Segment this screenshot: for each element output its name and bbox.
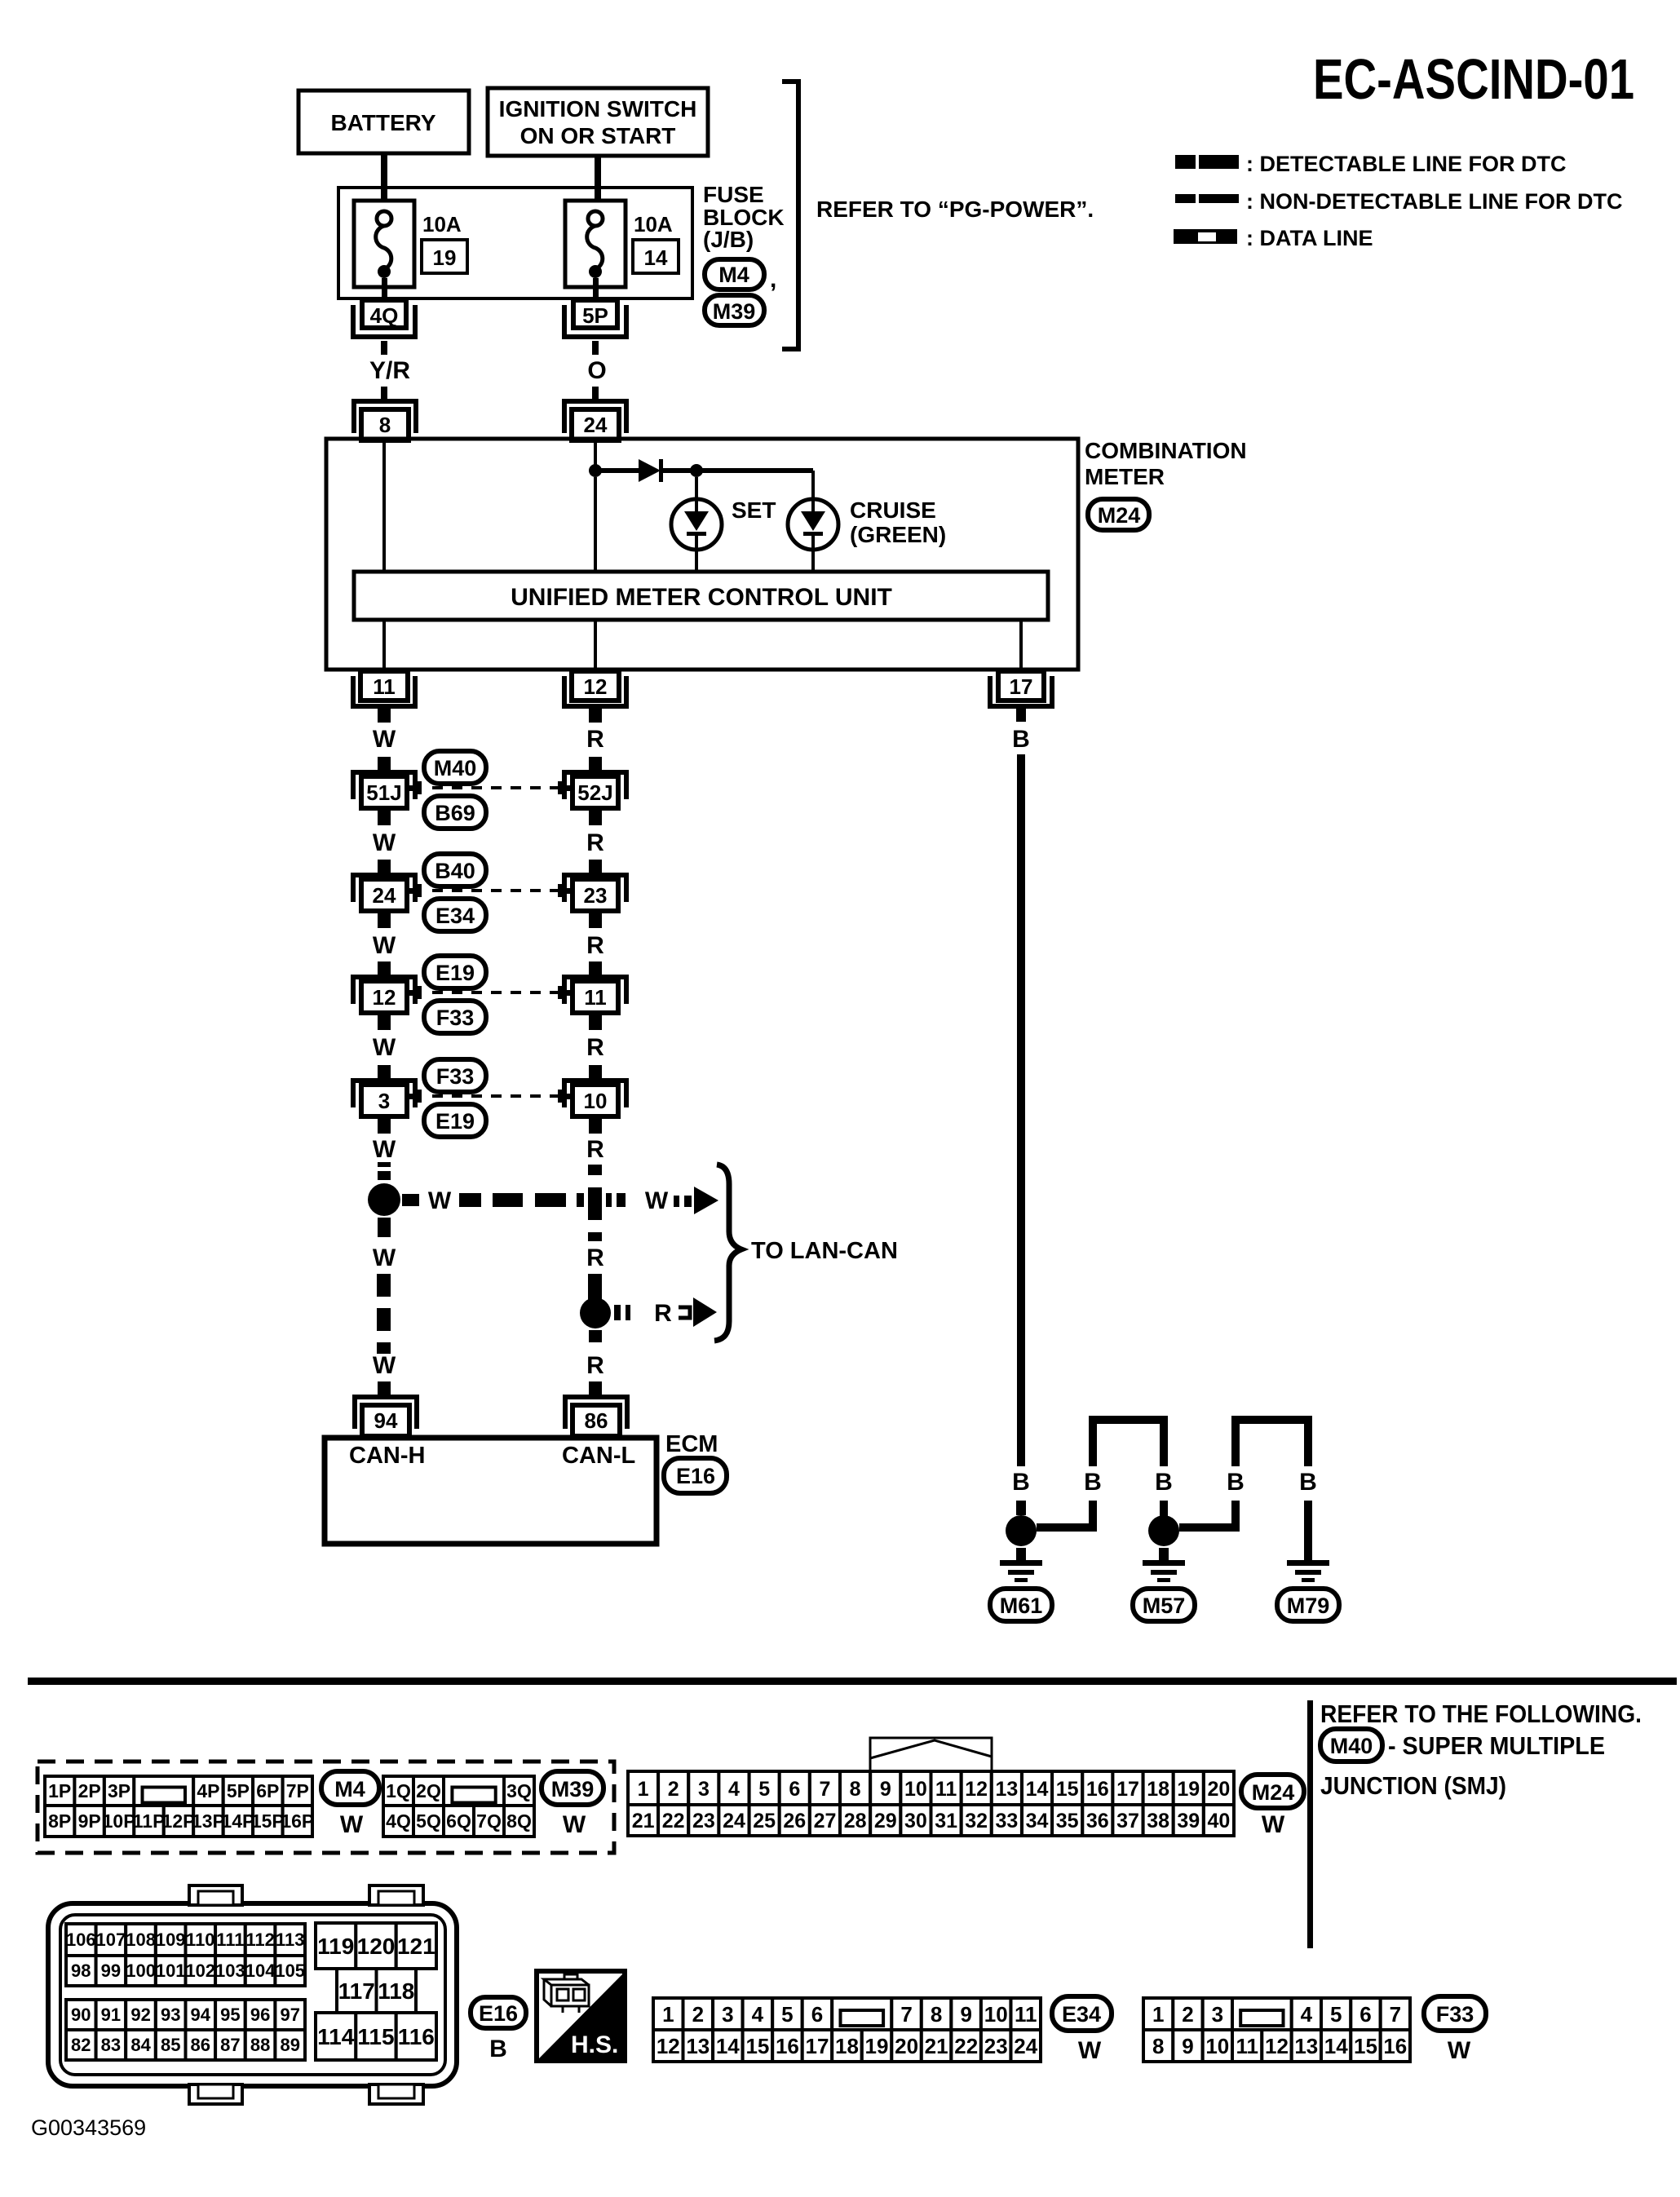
svg-text:24: 24 bbox=[373, 883, 396, 908]
svg-text:M24: M24 bbox=[1098, 503, 1141, 528]
CRUISE (GREEN) label bbox=[850, 497, 946, 547]
svg-text:10: 10 bbox=[1205, 2034, 1229, 2058]
svg-text:1: 1 bbox=[662, 2002, 674, 2027]
svg-text:4: 4 bbox=[752, 2002, 764, 2027]
svg-text:M39: M39 bbox=[713, 299, 756, 324]
svg-text:32: 32 bbox=[965, 1810, 988, 1832]
svg-text:M61: M61 bbox=[1000, 1594, 1043, 1618]
svg-text:G00343569: G00343569 bbox=[31, 2115, 146, 2140]
connector id oval E19 (row 4) bbox=[424, 1104, 486, 1137]
svg-text:93: 93 bbox=[161, 2005, 180, 2025]
svg-text:10: 10 bbox=[584, 1089, 608, 1113]
svg-text:9P: 9P bbox=[78, 1810, 101, 1832]
svg-text:B: B bbox=[1084, 1469, 1102, 1496]
svg-text:COMBINATION: COMBINATION bbox=[1085, 438, 1247, 463]
svg-text:FUSE: FUSE bbox=[703, 182, 764, 207]
connector face F33 pin grid bbox=[1143, 1998, 1410, 2062]
svg-text:: DATA LINE: : DATA LINE bbox=[1246, 226, 1373, 250]
SMJ dashed link 24-23 bbox=[418, 884, 562, 897]
svg-text:14: 14 bbox=[716, 2034, 740, 2058]
svg-text:W: W bbox=[373, 1136, 396, 1163]
wire into SMJ 24 bbox=[378, 860, 391, 873]
svg-text:: DETECTABLE LINE FOR DTC: : DETECTABLE LINE FOR DTC bbox=[1246, 152, 1566, 176]
svg-text:19: 19 bbox=[1177, 1778, 1200, 1801]
wire control unit to terminal 17 bbox=[1019, 620, 1023, 670]
svg-text:21: 21 bbox=[632, 1810, 655, 1832]
junction dot CAN-H branch bbox=[368, 1183, 400, 1216]
svg-text:10A: 10A bbox=[422, 212, 462, 236]
indicator lamp CRUISE (GREEN) bbox=[788, 499, 838, 550]
terminal 12 (combination meter) bbox=[564, 671, 626, 706]
ECM connector E16 housing bbox=[48, 1885, 457, 2104]
E16 pin grid 117-118 bbox=[337, 1969, 416, 2013]
wire staple2 left leg lower bbox=[1231, 1501, 1240, 1532]
svg-text:35: 35 bbox=[1056, 1810, 1079, 1832]
svg-text:33: 33 bbox=[995, 1810, 1018, 1832]
connector id oval B69 (row 1) bbox=[424, 796, 486, 829]
svg-text:1: 1 bbox=[638, 1778, 649, 1801]
fuse 19 10A bbox=[354, 201, 414, 300]
SMJ terminal 3 (left) bbox=[353, 1081, 418, 1116]
svg-text:3: 3 bbox=[722, 2002, 733, 2027]
data line W horizontal after crossing bbox=[606, 1193, 626, 1207]
terminal 24 (combination meter) bbox=[564, 401, 626, 440]
unified meter control unit box bbox=[354, 572, 1048, 620]
svg-text:2: 2 bbox=[692, 2002, 704, 2027]
svg-text:14: 14 bbox=[1026, 1778, 1049, 1801]
svg-text:86: 86 bbox=[191, 2035, 210, 2055]
connector id oval M4 (fuse block) bbox=[705, 259, 764, 290]
svg-text:3: 3 bbox=[1212, 2002, 1223, 2027]
svg-text:1Q: 1Q bbox=[386, 1780, 411, 1801]
svg-text:M24: M24 bbox=[1252, 1780, 1295, 1805]
wire below CAN-L junction bbox=[589, 1330, 602, 1342]
svg-text:O: O bbox=[587, 357, 606, 384]
svg-text:Y/R: Y/R bbox=[369, 357, 410, 384]
E16 pin grid lower left bbox=[66, 2000, 305, 2060]
connector id oval F33 (face) bbox=[1424, 1996, 1486, 2031]
svg-text:R: R bbox=[586, 829, 604, 856]
svg-text:1: 1 bbox=[1152, 2002, 1164, 2027]
SMJ terminal 11 (right) bbox=[561, 977, 626, 1013]
svg-text:15P: 15P bbox=[251, 1810, 285, 1832]
svg-text:5Q: 5Q bbox=[416, 1810, 441, 1832]
svg-text:E34: E34 bbox=[435, 904, 475, 928]
wire terminal 8 to unified meter control unit bbox=[382, 440, 386, 572]
svg-text:M4: M4 bbox=[334, 1777, 365, 1801]
svg-text:13: 13 bbox=[995, 1778, 1018, 1801]
svg-text:117: 117 bbox=[338, 1978, 375, 2004]
svg-text:82: 82 bbox=[71, 2035, 91, 2055]
wire R junction to arrow (with notch) bbox=[614, 1305, 630, 1320]
connector face E34 pin grid bbox=[653, 1998, 1041, 2062]
svg-text:34: 34 bbox=[1026, 1810, 1049, 1832]
svg-text:94: 94 bbox=[191, 2005, 211, 2025]
svg-text:12: 12 bbox=[657, 2034, 680, 2058]
svg-text:7: 7 bbox=[900, 2002, 912, 2027]
svg-text:8: 8 bbox=[1152, 2034, 1164, 2058]
wire B label to M61 dot bbox=[1016, 1501, 1026, 1515]
svg-text:12: 12 bbox=[584, 674, 608, 699]
wire Y/R label to terminal 8 bbox=[381, 387, 387, 401]
svg-text:5P: 5P bbox=[227, 1780, 250, 1801]
wire battery to fuse bbox=[381, 153, 387, 202]
terminal 5P bbox=[564, 300, 626, 337]
svg-text:89: 89 bbox=[280, 2035, 299, 2055]
data line piece before R arrow bbox=[679, 1307, 690, 1318]
wire into terminal 94 bbox=[378, 1381, 391, 1396]
svg-text:109: 109 bbox=[156, 1930, 186, 1950]
svg-text:B: B bbox=[1012, 726, 1030, 753]
ground id oval M57 bbox=[1133, 1589, 1195, 1621]
svg-text:27: 27 bbox=[814, 1810, 837, 1832]
wire control unit to terminal 12 bbox=[594, 620, 597, 670]
arrow W to LAN-CAN bbox=[674, 1187, 718, 1214]
legend: data line sample bbox=[1174, 229, 1237, 244]
wire M61 dot to ground bbox=[1016, 1548, 1026, 1561]
fuse number box 19 bbox=[422, 240, 467, 273]
svg-text:4P: 4P bbox=[197, 1780, 219, 1801]
svg-text:28: 28 bbox=[844, 1810, 867, 1832]
SMJ terminal 51J (left) bbox=[353, 772, 418, 808]
svg-text:15: 15 bbox=[1354, 2034, 1377, 2058]
svg-text:B: B bbox=[1227, 1469, 1245, 1496]
connector id oval M40 (row 1) bbox=[424, 751, 486, 784]
bracket for refer to PG-POWER bbox=[782, 82, 798, 349]
svg-text:11: 11 bbox=[373, 674, 396, 699]
svg-text:- SUPER MULTIPLE: - SUPER MULTIPLE bbox=[1388, 1731, 1605, 1760]
battery box bbox=[298, 91, 469, 153]
svg-text:17: 17 bbox=[1116, 1778, 1139, 1801]
svg-text:14P: 14P bbox=[221, 1810, 254, 1832]
connector id oval M24 (combination meter) bbox=[1088, 499, 1149, 530]
wire into SMJ 23 bbox=[589, 860, 602, 873]
svg-text:16: 16 bbox=[776, 2034, 799, 2058]
svg-text:113: 113 bbox=[276, 1930, 305, 1950]
svg-text:2P: 2P bbox=[78, 1780, 101, 1801]
svg-text:UNIFIED METER CONTROL UNIT: UNIFIED METER CONTROL UNIT bbox=[511, 584, 892, 611]
connector face M39 pin grid bbox=[383, 1776, 534, 1837]
svg-text:26: 26 bbox=[783, 1810, 806, 1832]
svg-text:B69: B69 bbox=[435, 801, 475, 825]
wire below SMJ 24 bbox=[378, 911, 391, 928]
svg-text:120: 120 bbox=[357, 1934, 396, 1959]
svg-text:6: 6 bbox=[811, 2002, 823, 2027]
fuse block label bbox=[703, 182, 785, 252]
wire O label to terminal 24 bbox=[592, 387, 599, 401]
svg-text:99: 99 bbox=[101, 1961, 121, 1981]
svg-text:M79: M79 bbox=[1287, 1594, 1330, 1618]
connector id oval E34 (row 2) bbox=[424, 899, 486, 931]
svg-text:17: 17 bbox=[806, 2034, 829, 2058]
svg-text:W: W bbox=[373, 1352, 396, 1379]
svg-text:6: 6 bbox=[1359, 2002, 1371, 2027]
svg-text:24: 24 bbox=[584, 413, 608, 437]
SMJ terminal 52J (right) bbox=[561, 772, 626, 808]
wire below SMJ 10 bbox=[589, 1116, 602, 1134]
wire into SMJ 11 bbox=[589, 961, 602, 975]
svg-text:97: 97 bbox=[280, 2005, 299, 2025]
SMJ dashed link 51J-52J bbox=[418, 781, 562, 794]
svg-text:10A: 10A bbox=[634, 212, 673, 236]
svg-text:2: 2 bbox=[668, 1778, 679, 1801]
svg-text:88: 88 bbox=[250, 2035, 270, 2055]
terminal 17 (combination meter) bbox=[990, 671, 1052, 706]
svg-text:36: 36 bbox=[1086, 1810, 1109, 1832]
svg-text:40: 40 bbox=[1207, 1810, 1230, 1832]
ground symbol M79 bbox=[1287, 1560, 1329, 1582]
fuse 14 10A bbox=[565, 201, 626, 300]
svg-text:31: 31 bbox=[935, 1810, 957, 1832]
svg-text:19: 19 bbox=[865, 2034, 889, 2058]
svg-text:85: 85 bbox=[161, 2035, 180, 2055]
svg-text:5P: 5P bbox=[582, 303, 608, 328]
svg-text:7: 7 bbox=[820, 1778, 831, 1801]
svg-text:6Q: 6Q bbox=[446, 1810, 471, 1832]
connector id oval E19 (row 3) bbox=[424, 956, 486, 988]
svg-text:16P: 16P bbox=[281, 1810, 314, 1832]
svg-text:118: 118 bbox=[378, 1978, 414, 2004]
svg-text:R: R bbox=[586, 1352, 604, 1379]
svg-text:13: 13 bbox=[686, 2034, 710, 2058]
svg-text:11: 11 bbox=[1236, 2034, 1258, 2058]
svg-text:98: 98 bbox=[71, 1961, 91, 1981]
svg-text:96: 96 bbox=[250, 2005, 270, 2025]
svg-text:W: W bbox=[373, 829, 396, 856]
wire diode to set lamp node bbox=[663, 468, 696, 473]
svg-text:7Q: 7Q bbox=[476, 1810, 502, 1832]
svg-text:BATTERY: BATTERY bbox=[330, 110, 435, 135]
svg-text:REFER TO THE FOLLOWING.: REFER TO THE FOLLOWING. bbox=[1320, 1700, 1642, 1728]
svg-text:12: 12 bbox=[965, 1778, 988, 1801]
data line CAN-L vertical lower bbox=[588, 1274, 602, 1300]
wire below SMJ 51J bbox=[378, 808, 391, 825]
svg-text:B: B bbox=[1155, 1469, 1173, 1496]
svg-text:5: 5 bbox=[758, 1778, 770, 1801]
data line W horizontal to LAN-CAN bbox=[459, 1193, 584, 1207]
diode bbox=[639, 459, 663, 482]
wire into SMJ 10 bbox=[589, 1065, 602, 1079]
E16 pin grid 119-121 bbox=[316, 1923, 436, 1969]
svg-text:14: 14 bbox=[644, 245, 668, 270]
svg-text:94: 94 bbox=[374, 1408, 398, 1433]
connector id oval B40 (row 2) bbox=[424, 854, 486, 886]
junction dot ground M61 bbox=[1006, 1515, 1037, 1546]
svg-text:ON OR START: ON OR START bbox=[520, 123, 676, 148]
svg-text:R: R bbox=[586, 1136, 604, 1163]
svg-text:87: 87 bbox=[220, 2035, 240, 2055]
svg-text:9: 9 bbox=[1182, 2034, 1193, 2058]
svg-text:B40: B40 bbox=[435, 859, 475, 883]
wire node down to control unit bbox=[594, 477, 597, 572]
SMJ terminal 12 (left) bbox=[353, 977, 418, 1013]
wire ground M57 junction link bbox=[1179, 1523, 1236, 1532]
wire into SMJ 52J bbox=[589, 757, 602, 771]
svg-text:3P: 3P bbox=[108, 1780, 130, 1801]
connector id oval M24 (face) bbox=[1241, 1775, 1304, 1808]
indicator lamp SET bbox=[671, 499, 722, 550]
wire terminal 12 stub bbox=[589, 709, 602, 723]
svg-text:W: W bbox=[373, 1244, 396, 1271]
refer-to divider line bbox=[1307, 1700, 1313, 1948]
wire 5P to O label bbox=[592, 341, 599, 355]
svg-text:E16: E16 bbox=[479, 2001, 518, 2026]
svg-text:E19: E19 bbox=[435, 1109, 475, 1134]
connector id oval M40 (note) bbox=[1320, 1729, 1382, 1762]
svg-text:CAN-L: CAN-L bbox=[562, 1443, 635, 1469]
svg-text:8: 8 bbox=[850, 1778, 861, 1801]
svg-text:ECM: ECM bbox=[665, 1431, 718, 1457]
svg-text:TO LAN-CAN: TO LAN-CAN bbox=[751, 1238, 898, 1264]
svg-text:95: 95 bbox=[220, 2005, 240, 2025]
wire 4Q to Y/R label bbox=[381, 341, 387, 355]
connector id oval E16 (face) bbox=[471, 1997, 526, 2028]
svg-text:R: R bbox=[586, 726, 604, 753]
svg-text:51J: 51J bbox=[366, 780, 401, 805]
svg-text:B: B bbox=[1012, 1469, 1030, 1496]
svg-text:R: R bbox=[586, 1244, 604, 1271]
svg-text:112: 112 bbox=[245, 1930, 275, 1950]
svg-text:10: 10 bbox=[984, 2002, 1008, 2027]
svg-text:11: 11 bbox=[935, 1778, 957, 1801]
svg-text:10P: 10P bbox=[103, 1810, 136, 1832]
wire control unit to terminal 11 bbox=[382, 620, 386, 670]
terminal 4Q bbox=[353, 300, 415, 337]
svg-text:119: 119 bbox=[317, 1934, 354, 1959]
wire terminal 24 to diode node bbox=[594, 440, 597, 471]
svg-text:4Q: 4Q bbox=[386, 1810, 411, 1832]
svg-text:M40: M40 bbox=[1330, 1734, 1373, 1758]
svg-text:20: 20 bbox=[895, 2034, 918, 2058]
svg-text:18: 18 bbox=[835, 2034, 859, 2058]
wire W to junction (with notch) bbox=[378, 1162, 391, 1180]
wire SET lamp to control unit bbox=[695, 550, 698, 572]
svg-text:101: 101 bbox=[156, 1961, 186, 1981]
wire staple2 right leg to ground bbox=[1304, 1501, 1312, 1563]
terminal 94 (ECM CAN-H) bbox=[355, 1397, 417, 1436]
svg-text:20: 20 bbox=[1207, 1778, 1230, 1801]
wire below SMJ 23 bbox=[589, 911, 602, 928]
svg-text:15: 15 bbox=[1056, 1778, 1079, 1801]
svg-text:M57: M57 bbox=[1143, 1594, 1186, 1618]
svg-text:90: 90 bbox=[71, 2005, 91, 2025]
connector id oval M39 (fuse block) bbox=[705, 295, 764, 325]
svg-text:B: B bbox=[489, 2036, 507, 2062]
legend: non-detectable line sample bbox=[1175, 194, 1239, 203]
svg-text:22: 22 bbox=[954, 2034, 978, 2058]
svg-text:R: R bbox=[654, 1300, 672, 1327]
wire down to CRUISE lamp bbox=[811, 471, 815, 499]
svg-text:16: 16 bbox=[1086, 1778, 1109, 1801]
M24 connector tent mark bbox=[870, 1738, 992, 1771]
svg-text:14: 14 bbox=[1324, 2034, 1348, 2058]
svg-text:19: 19 bbox=[433, 245, 457, 270]
svg-text:W: W bbox=[428, 1187, 452, 1214]
svg-text:(J/B): (J/B) bbox=[703, 227, 754, 252]
wire into SMJ 3 bbox=[378, 1065, 391, 1079]
wire terminal 17 stub bbox=[1016, 709, 1026, 722]
wire below SMJ 52J bbox=[589, 808, 602, 825]
svg-text:E34: E34 bbox=[1062, 2002, 1101, 2027]
svg-text:W: W bbox=[373, 932, 396, 959]
ignition switch box bbox=[488, 88, 708, 156]
svg-text:23: 23 bbox=[984, 2034, 1008, 2058]
connector face M24 pin grid bbox=[628, 1771, 1234, 1836]
wire below SMJ 12 bbox=[378, 1013, 391, 1030]
SMJ terminal 23 (right) bbox=[561, 875, 626, 911]
svg-text:30: 30 bbox=[904, 1810, 927, 1832]
wire staple1 left leg lower bbox=[1089, 1501, 1097, 1532]
svg-text:11: 11 bbox=[1015, 2002, 1037, 2027]
svg-text:M40: M40 bbox=[434, 756, 477, 780]
svg-text:H.S.: H.S. bbox=[571, 2031, 618, 2058]
svg-text:24: 24 bbox=[1014, 2034, 1037, 2058]
svg-text:2Q: 2Q bbox=[416, 1780, 441, 1801]
svg-text:IGNITION SWITCH: IGNITION SWITCH bbox=[499, 96, 697, 122]
ECM box bbox=[325, 1438, 657, 1544]
svg-text:16: 16 bbox=[1383, 2034, 1407, 2058]
terminal 11 (combination meter) bbox=[353, 671, 415, 706]
wire into terminal 86 bbox=[589, 1381, 602, 1396]
wire junction to W label bbox=[402, 1194, 419, 1206]
wire below SMJ 3 bbox=[378, 1116, 391, 1134]
svg-text:W: W bbox=[645, 1187, 669, 1214]
connector id oval E34 (face) bbox=[1052, 1996, 1112, 2031]
svg-text:8: 8 bbox=[931, 2002, 942, 2027]
svg-text:4: 4 bbox=[728, 1778, 740, 1801]
svg-text:W: W bbox=[563, 1811, 586, 1838]
wire CRUISE lamp to control unit bbox=[811, 550, 815, 572]
terminal 86 (ECM CAN-L) bbox=[565, 1397, 627, 1436]
ground symbol M57 bbox=[1143, 1560, 1185, 1582]
svg-text:25: 25 bbox=[753, 1810, 776, 1832]
wire staple1 right leg lower bbox=[1160, 1501, 1168, 1521]
svg-text:121: 121 bbox=[397, 1934, 435, 1959]
SMJ terminal 10 (right) bbox=[561, 1081, 626, 1116]
svg-text:W: W bbox=[373, 726, 396, 753]
svg-text:18: 18 bbox=[1147, 1778, 1169, 1801]
wire below CAN-H junction bbox=[378, 1218, 391, 1237]
svg-text:105: 105 bbox=[275, 1961, 305, 1981]
svg-text:M39: M39 bbox=[551, 1777, 595, 1801]
svg-text:4: 4 bbox=[1301, 2002, 1313, 2027]
svg-text:5: 5 bbox=[1330, 2002, 1342, 2027]
svg-text:37: 37 bbox=[1116, 1810, 1139, 1832]
svg-text:15: 15 bbox=[745, 2034, 769, 2058]
svg-text:METER: METER bbox=[1085, 464, 1165, 489]
svg-text:1P: 1P bbox=[48, 1780, 71, 1801]
svg-text:8P: 8P bbox=[48, 1810, 71, 1832]
wire M57 dot to ground bbox=[1159, 1548, 1169, 1561]
svg-text:2: 2 bbox=[1182, 2002, 1193, 2027]
svg-text:EC-ASCIND-01: EC-ASCIND-01 bbox=[1313, 47, 1634, 111]
svg-text:9: 9 bbox=[960, 2002, 971, 2027]
E16 pin grid upper left bbox=[66, 1924, 305, 1986]
wire ground M61 junction link bbox=[1037, 1523, 1093, 1532]
svg-text:24: 24 bbox=[723, 1810, 745, 1832]
junction dot CAN-L branch bbox=[580, 1297, 611, 1328]
svg-text:12P: 12P bbox=[162, 1810, 196, 1832]
svg-text:111: 111 bbox=[216, 1930, 244, 1950]
wire B from terminal 17 down bbox=[1017, 754, 1025, 1466]
svg-text:21: 21 bbox=[925, 2034, 948, 2058]
svg-text:E16: E16 bbox=[676, 1464, 715, 1488]
svg-text:11P: 11P bbox=[133, 1810, 166, 1832]
separator line bbox=[28, 1678, 1677, 1685]
svg-text:W: W bbox=[1448, 2037, 1471, 2064]
wire into SMJ 51J bbox=[378, 757, 391, 771]
ground id oval M61 bbox=[990, 1589, 1052, 1621]
